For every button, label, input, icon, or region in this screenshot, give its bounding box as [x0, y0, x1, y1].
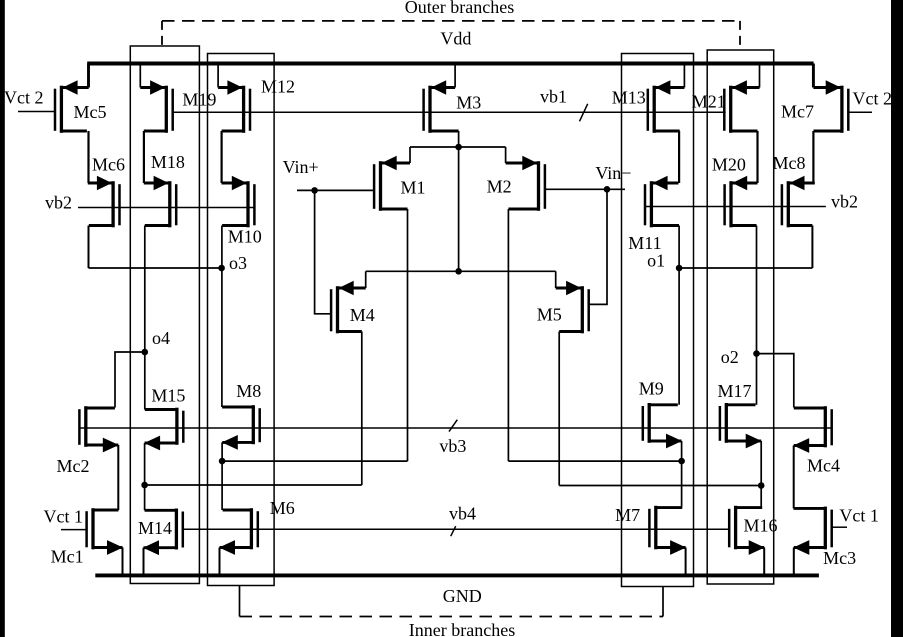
wire Mc8 source down [811, 226, 813, 269]
wire M4 source down [361, 332, 363, 486]
transistor Mc7 PMOS [813, 80, 848, 133]
wire M12 drain to M10 drain [221, 131, 223, 183]
wire M2 drain to M9 source [508, 460, 681, 462]
transistor M18 PMOS cascode [144, 176, 176, 228]
svg-text:M10: M10 [228, 227, 262, 247]
svg-text:GND: GND [443, 586, 482, 606]
svg-text:o1: o1 [647, 251, 665, 271]
node M9 source node [678, 458, 685, 465]
svg-text:o3: o3 [229, 253, 247, 273]
wire vb1 bias line (M19 M12 M3 M13 M21 gates) [174, 111, 726, 113]
node o2 [753, 350, 760, 357]
wire Vct1 gate lead Mc1 [61, 529, 87, 531]
svg-text:M5: M5 [537, 305, 562, 325]
transistor M15 NMOS cascode [144, 408, 183, 451]
svg-text:Mc6: Mc6 [92, 155, 125, 175]
transistor M3 PMOS tail [424, 80, 459, 133]
wire M18 source down to o4 [144, 226, 146, 410]
wire M10 source to M8 drain [221, 226, 223, 408]
wire Vin- to M5 gate [589, 189, 607, 304]
wire M20 source down to o2 [756, 226, 758, 405]
wire M13 source to Vdd [683, 64, 685, 88]
wire M2 drain down [507, 209, 509, 461]
svg-text:M20: M20 [712, 154, 746, 174]
left inner branch box [208, 54, 275, 586]
svg-text:o4: o4 [152, 328, 170, 348]
wire vb4 bias line (M14 M6 M7 M16 gates) [183, 528, 729, 530]
transistor M9 NMOS cascode [643, 403, 682, 448]
node M17 source node [758, 482, 765, 489]
wire M2 source up [505, 147, 507, 163]
wire M9 source down [681, 441, 683, 508]
transistor M6 NMOS [219, 508, 258, 555]
svg-text:M17: M17 [718, 381, 752, 401]
svg-text:M4: M4 [350, 305, 375, 325]
svg-text:M2: M2 [487, 177, 512, 197]
transistor M7 NMOS [649, 506, 686, 555]
wire Mc3 source to GND [793, 548, 795, 575]
wire vb2 bias line right (M11 M20 Mc8 gates) [645, 206, 826, 208]
transistor M21 PMOS [724, 80, 759, 133]
svg-text:M9: M9 [639, 379, 664, 399]
svg-text:M21: M21 [692, 92, 726, 112]
transistor M19 PMOS [140, 80, 172, 133]
wire Mc5 source to Vdd [87, 64, 90, 88]
transistor M14 NMOS [143, 509, 183, 556]
wire M15 source down [144, 443, 146, 510]
wire vb2 bias line left (Mc6 M18 M10 gates) [78, 207, 254, 209]
svg-text:Inner branches: Inner branches [409, 620, 515, 637]
svg-text:vb3: vb3 [439, 436, 466, 456]
svg-text:Vct 1: Vct 1 [839, 506, 879, 526]
svg-text:Vct 2: Vct 2 [4, 88, 44, 108]
transistor M13 PMOS [648, 80, 685, 133]
svg-text:Vin+: Vin+ [283, 157, 319, 177]
svg-text:M8: M8 [236, 381, 261, 401]
wire M1 drain to M8 source [222, 460, 407, 462]
svg-text:Mc1: Mc1 [51, 547, 84, 567]
transistor Mc4 NMOS cascode [793, 406, 832, 453]
wire Mc4 source down [793, 446, 795, 509]
outer branches dashed drop left [161, 21, 163, 46]
wire Mc7 source to Vdd [812, 64, 815, 88]
svg-text:Vdd: Vdd [440, 29, 471, 49]
svg-text:vb2: vb2 [831, 192, 858, 212]
transistor Mc6 PMOS cascode [88, 176, 120, 228]
wire Vct1 gate lead Mc3 [832, 526, 847, 528]
node o4 [142, 349, 149, 356]
wire o4 branch line [115, 352, 145, 408]
wire Mc6 source down [88, 226, 90, 269]
svg-text:Vin−: Vin− [595, 163, 631, 183]
inner branches callout drop right [662, 587, 664, 617]
wire Mc1 source to GND [122, 548, 124, 575]
page right black border [891, 0, 903, 637]
wire o3 branch line [89, 267, 222, 269]
wire M11 source to M9 drain [678, 226, 680, 405]
wire M16 source to GND [763, 548, 765, 575]
wire M13 drain to M11 drain [678, 131, 680, 183]
svg-text:M15: M15 [151, 385, 185, 405]
GND rail [95, 573, 819, 577]
svg-text:M3: M3 [456, 93, 481, 113]
svg-text:vb4: vb4 [449, 504, 476, 524]
vb3 slash mark [449, 420, 457, 432]
svg-text:M16: M16 [744, 516, 778, 536]
wire diff pair source line [410, 146, 506, 148]
Vdd rail [87, 62, 813, 66]
wire o2 branch line [757, 354, 794, 408]
wire M19 source to Vdd [139, 64, 141, 88]
right outer branch box [707, 50, 774, 584]
svg-text:M14: M14 [138, 518, 172, 538]
transistor M8 NMOS cascode [222, 405, 260, 450]
transistor M1 PMOS input [374, 156, 410, 211]
transistor M4 NMOS [331, 281, 366, 334]
node o3 [218, 265, 225, 272]
transistor M16 NMOS [729, 506, 765, 555]
wire M5 source down [558, 332, 560, 486]
transistor Mc1 NMOS [87, 508, 123, 555]
wire M3 drain down [458, 131, 460, 147]
svg-text:Mc8: Mc8 [773, 153, 806, 173]
wire o1 branch line [679, 267, 812, 269]
wire M4 source to M15 source [145, 484, 362, 486]
svg-text:Mc5: Mc5 [74, 102, 107, 122]
wire M12 source to Vdd [217, 64, 219, 88]
svg-text:Mc4: Mc4 [807, 456, 840, 476]
vb4 slash mark [451, 526, 456, 536]
svg-text:Vct 2: Vct 2 [853, 89, 893, 109]
svg-text:Vct 1: Vct 1 [44, 507, 84, 527]
transistor M17 NMOS cascode [720, 403, 762, 448]
wire M4 drain up [365, 271, 367, 288]
node o1 [676, 265, 683, 272]
wire M4-M5 drain line [366, 270, 556, 272]
wire Vin+ lead [297, 189, 374, 191]
transistor M20 PMOS cascode [725, 176, 758, 228]
outer branches dashed callout line [162, 20, 740, 22]
wire M3 source to Vdd [454, 64, 456, 88]
node M8 source node [219, 458, 226, 465]
page left black border [0, 0, 5, 637]
wire Mc2 source down [117, 445, 119, 510]
svg-text:M12: M12 [261, 77, 295, 97]
transistor M5 NMOS [556, 281, 589, 334]
wire M21 source to Vdd [759, 64, 761, 88]
wire M6 source to GND [219, 548, 221, 575]
wire Mc7 drain to Mc8 drain [812, 131, 814, 183]
left outer branch box [130, 46, 199, 584]
svg-text:M19: M19 [182, 90, 216, 110]
wire M7 source to GND [685, 548, 687, 575]
svg-text:o2: o2 [721, 347, 739, 367]
wire M8 source down [221, 442, 223, 510]
transistor Mc2 NMOS cascode [79, 406, 118, 452]
node Vin+ node [311, 187, 318, 194]
node tail node [455, 144, 462, 151]
node M15 source node [141, 482, 148, 489]
wire M14 source to GND [143, 548, 145, 574]
transistor Mc8 PMOS cascode [782, 176, 815, 228]
inner branches callout drop left [239, 586, 241, 617]
transistor Mc3 NMOS [793, 507, 831, 555]
outer branches dashed drop right [739, 21, 741, 50]
transistor M11 PMOS cascode [645, 176, 679, 228]
wire Vct2 gate lead Mc7 [848, 111, 872, 113]
svg-text:M7: M7 [615, 505, 640, 525]
svg-text:M18: M18 [151, 152, 185, 172]
wire M5 drain up [555, 271, 557, 288]
inner branches dashed callout line [240, 616, 664, 618]
wire Vin- lead [545, 188, 625, 190]
wire M21 drain to M20 drain [756, 131, 758, 183]
wire M19 drain to M18 drain [143, 131, 145, 183]
wire M1 source up [409, 147, 411, 163]
wire M17 source down [760, 441, 762, 508]
transistor M2 PMOS input [506, 156, 545, 211]
svg-text:M6: M6 [270, 498, 295, 518]
wire Mc5 drain to Mc6 drain [87, 131, 89, 183]
node Vin- node [604, 186, 611, 193]
wire tail to fold node [458, 147, 460, 271]
node fold node [455, 268, 462, 275]
transistor M12 PMOS [218, 80, 250, 133]
vb1 slash mark [580, 104, 588, 122]
svg-text:vb2: vb2 [45, 193, 72, 213]
transistor M10 PMOS cascode [222, 176, 255, 228]
svg-text:Mc3: Mc3 [823, 548, 856, 568]
svg-text:Mc2: Mc2 [57, 456, 90, 476]
svg-text:M1: M1 [401, 178, 426, 198]
wire M5 source to M17 source [559, 485, 761, 487]
transistor Mc5 PMOS [55, 80, 89, 133]
wire M1 drain down [407, 209, 409, 461]
svg-text:Mc7: Mc7 [781, 101, 814, 121]
wire vb3 bias line (Mc2 M15 M8 M9 M17 Mc4 gates) [79, 427, 831, 429]
wire Vct2 gate lead Mc5 [18, 111, 55, 113]
right inner branch box [622, 54, 694, 587]
svg-text:Outer branches: Outer branches [405, 0, 514, 17]
svg-text:vb1: vb1 [540, 87, 567, 107]
svg-text:M13: M13 [612, 88, 646, 108]
wire Vin+ to M4 gate [315, 190, 332, 313]
